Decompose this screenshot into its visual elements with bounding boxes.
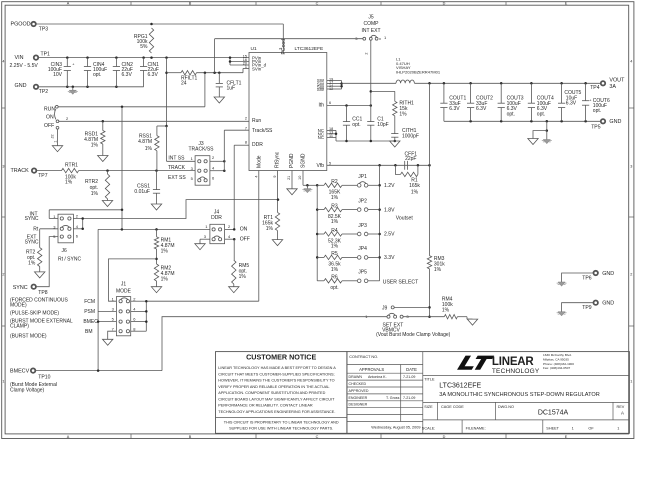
- svg-text:3.3V: 3.3V: [384, 255, 395, 261]
- wire SYNC net (J6 pin2 to RtSync): [73, 200, 278, 219]
- svg-text:D: D: [443, 2, 446, 6]
- svg-text:TP6: TP6: [582, 276, 592, 282]
- svg-text:VIN: VIN: [15, 55, 24, 61]
- resistor RT2 opt. 1%: [40, 228, 58, 230]
- svg-text:E: E: [565, 2, 568, 6]
- ground (RM4): [467, 319, 477, 325]
- svg-text:(BURST MODE): (BURST MODE): [10, 333, 47, 339]
- wire U1 DDR pin 8 to J4: [234, 144, 249, 146]
- svg-text:TP7: TP7: [38, 173, 48, 179]
- svg-text:VOUT: VOUT: [609, 77, 625, 83]
- svg-text:2: 2: [365, 52, 369, 54]
- wire U1 Mode pin 4 down to J1 pin2: [258, 171, 260, 302]
- svg-text:opt.: opt.: [93, 72, 101, 78]
- wire U1 RtSync pin 9 to RT1: [277, 171, 279, 213]
- svg-text:SGND: SGND: [301, 153, 307, 168]
- svg-text:CHECKED: CHECKED: [349, 382, 367, 386]
- ground (RM2): [151, 287, 161, 293]
- wire BMECV vertical (J4 pin1 down): [97, 229, 99, 370]
- svg-text:Rt / SYNC: Rt / SYNC: [58, 256, 81, 262]
- svg-text:Vfb: Vfb: [316, 163, 324, 169]
- svg-text:LINEAR: LINEAR: [492, 356, 535, 368]
- capacitor CFLT1 1uF: [218, 73, 220, 84]
- svg-text:TP5: TP5: [591, 125, 601, 131]
- svg-text:1%: 1%: [399, 111, 407, 117]
- svg-text:SW: SW: [317, 87, 325, 92]
- svg-text:10pF: 10pF: [377, 122, 388, 128]
- resistor R5 36.5k 1%: [317, 256, 324, 258]
- svg-text:BM: BM: [85, 329, 93, 335]
- svg-text:LTC3612EFE: LTC3612EFE: [295, 46, 324, 52]
- svg-text:TP8: TP8: [38, 290, 48, 296]
- svg-text:opt.: opt.: [352, 122, 360, 128]
- svg-text:1000pF: 1000pF: [402, 133, 419, 139]
- svg-text:GND: GND: [609, 119, 621, 125]
- svg-text:BMEC: BMEC: [83, 319, 98, 325]
- svg-text:JP5: JP5: [358, 270, 367, 276]
- wire J5 pin2 down to ITH node: [370, 40, 372, 91]
- svg-text:APPROVALS: APPROVALS: [359, 367, 384, 372]
- capacitor CFF1 22pF: [404, 161, 406, 170]
- svg-text:1.2V: 1.2V: [384, 183, 395, 189]
- svg-text:3: 3: [279, 48, 283, 50]
- svg-text:ENGINEER: ENGINEER: [349, 396, 368, 400]
- wire J2 RUN pin to SVin node vertical: [58, 106, 205, 108]
- svg-text:C: C: [316, 435, 319, 439]
- svg-text:DDR: DDR: [211, 215, 222, 221]
- svg-text:5%: 5%: [140, 44, 148, 50]
- svg-text:Track/SS: Track/SS: [252, 128, 273, 134]
- capacitor COUT2 33uF 6.3V: [470, 83, 472, 103]
- svg-text:INT SS: INT SS: [168, 155, 185, 161]
- svg-text:FCM: FCM: [84, 299, 95, 305]
- svg-text:COMP: COMP: [364, 21, 380, 27]
- svg-text:JP3: JP3: [358, 223, 367, 229]
- svg-text:GND: GND: [602, 301, 614, 307]
- svg-text:opt.: opt.: [537, 111, 545, 117]
- wire VOUT rail: [414, 82, 600, 84]
- svg-text:SHEET: SHEET: [546, 426, 559, 430]
- wire J3 pins 2/4 to U1 Track/SS pin 7: [210, 160, 224, 162]
- svg-text:JP2: JP2: [358, 198, 367, 204]
- svg-text:RtSync: RtSync: [275, 151, 281, 168]
- jumper JP1: [357, 184, 361, 188]
- svg-text:MODE: MODE: [116, 288, 132, 294]
- svg-text:ON: ON: [46, 115, 54, 121]
- wire BMECV net to J9 pin1: [162, 317, 387, 371]
- svg-text:U1: U1: [251, 46, 257, 52]
- svg-text:1: 1: [2, 379, 4, 383]
- jumper JP2: [357, 208, 361, 212]
- wire RSS1 top to VIN vertical / J3 pin1: [157, 125, 167, 127]
- resistor R6 opt.: [317, 280, 324, 282]
- wire Vfb (U1 pin 5) to feedback node: [327, 164, 430, 166]
- svg-text:1%: 1%: [91, 191, 99, 197]
- svg-text:TECHNOLOGY: TECHNOLOGY: [492, 368, 540, 375]
- wire RM1/RM2 junction to J1 pin1 (FCM): [109, 259, 157, 301]
- capacitor COUT1 33uF 6.3V: [443, 83, 445, 103]
- resistor R2 165K 1%: [317, 184, 324, 186]
- wire J1 pin7 (BM) to ground: [108, 331, 117, 339]
- ground (ITH network): [390, 141, 400, 147]
- svg-text:SVin: SVin: [252, 66, 262, 71]
- svg-text:R4: R4: [331, 228, 338, 234]
- svg-text:DC1574A: DC1574A: [538, 410, 569, 417]
- test point TP9 GND: [594, 301, 598, 305]
- ground (RSD1): [98, 156, 108, 162]
- svg-text:R5: R5: [331, 251, 338, 257]
- ground (CSS1): [151, 204, 161, 210]
- wire PGOOD net (TP3 to U1 PGood pin): [36, 23, 283, 25]
- svg-text:22pF: 22pF: [405, 156, 416, 162]
- svg-text:J6: J6: [62, 248, 68, 254]
- svg-text:Voutset: Voutset: [396, 215, 414, 221]
- wire BMECV net: [35, 370, 162, 372]
- svg-text:EXT SS: EXT SS: [168, 175, 186, 181]
- capacitor COUT6 100uF opt. (electrolytic): [585, 83, 587, 100]
- svg-text:DDR: DDR: [252, 142, 263, 148]
- wire NC bus / compensation ground rail: [327, 129, 336, 131]
- svg-text:1%: 1%: [145, 146, 153, 152]
- svg-text:B: B: [189, 2, 192, 6]
- svg-text:DRAWN: DRAWN: [349, 375, 363, 379]
- svg-text:opt.: opt.: [507, 111, 515, 117]
- svg-text:OFF: OFF: [44, 123, 54, 129]
- svg-text:OFF: OFF: [240, 236, 250, 242]
- svg-text:1%: 1%: [442, 307, 450, 313]
- svg-text:BMECV: BMECV: [10, 368, 30, 374]
- svg-text:2: 2: [630, 272, 632, 276]
- capacitor CITH1 1000pF: [394, 116, 396, 134]
- svg-text:1: 1: [54, 140, 58, 142]
- svg-text:1630 McCarthy Blvd.: 1630 McCarthy Blvd.: [543, 353, 572, 357]
- svg-text:1.8V: 1.8V: [384, 207, 395, 213]
- capacitor COUT4 100uF 6.3V opt.: [530, 83, 532, 103]
- ground (output, open): [528, 139, 538, 145]
- resistor RSS1 4.87M 1%: [156, 126, 158, 136]
- svg-text:PSM: PSM: [84, 309, 95, 315]
- resistor R4 52.3K 1%: [317, 233, 324, 235]
- wire VIN rail: [38, 57, 230, 59]
- svg-text:Rt: Rt: [33, 226, 39, 232]
- resistor RT1 165k 1%: [275, 212, 279, 230]
- svg-text:x: x: [379, 37, 381, 41]
- resistor RM5 opt. 1% (DDR pulldown): [233, 239, 235, 260]
- svg-text:VERIFY PROPER AND RELIABLE OPE: VERIFY PROPER AND RELIABLE OPERATION IN …: [218, 385, 329, 389]
- svg-text:1%: 1%: [91, 143, 99, 149]
- svg-text:REV: REV: [617, 405, 625, 409]
- wire RUN node vertical: [121, 107, 123, 230]
- Linear Technology logo: [423, 374, 630, 376]
- svg-text:10V: 10V: [53, 72, 63, 78]
- wire PVin bus to U1 pins 15/16/20: [230, 57, 249, 59]
- svg-text:J9: J9: [382, 306, 388, 312]
- resistor RFILT1 24: [181, 71, 197, 75]
- svg-text:1uF: 1uF: [227, 86, 236, 92]
- svg-text:Antonina K.: Antonina K.: [368, 375, 387, 379]
- capacitor CC1 opt.: [346, 106, 348, 122]
- capacitor CIN4 100uF opt.: [87, 58, 89, 67]
- op-amp U1 LTC3612EFE (regulator IC): [249, 53, 327, 171]
- svg-text:OF: OF: [588, 426, 594, 430]
- capacitor COUT5 10uF 6.3V: [561, 83, 563, 103]
- svg-text:CLAMP): CLAMP): [10, 324, 29, 330]
- svg-text:165k: 165k: [409, 183, 420, 189]
- svg-text:CIRCUIT BOARD LAYOUT MAY SIGNI: CIRCUIT BOARD LAYOUT MAY SIGNIFICANTLY A…: [218, 397, 335, 401]
- wire GND rail (output): [444, 120, 601, 122]
- svg-text:1%: 1%: [331, 244, 339, 250]
- svg-text:Clamp Voltage): Clamp Voltage): [10, 387, 45, 393]
- wire TP9 to ground: [562, 303, 594, 312]
- svg-text:CAGE CODE: CAGE CODE: [441, 405, 464, 409]
- resistor RM4 100k 1%: [444, 315, 457, 319]
- wire U1 SGND pin 10 to ladder: [302, 171, 304, 186]
- svg-text:(Vout Burst Mode Clamp Voltage: (Vout Burst Mode Clamp Voltage): [376, 332, 451, 338]
- capacitor COUT3 100uF 6.3V opt.: [500, 83, 502, 103]
- svg-text:PGood: PGood: [281, 39, 287, 55]
- svg-text:1%: 1%: [161, 248, 169, 254]
- svg-text:PERFORMANCE OR RELIABILITY. C: PERFORMANCE OR RELIABILITY. CONTACT LINE…: [218, 404, 313, 408]
- svg-text:A: A: [621, 410, 624, 415]
- wire J1 pin3 (PSM) to BMECV vertical: [98, 310, 116, 312]
- svg-text:2: 2: [2, 272, 4, 276]
- svg-text:INT EXT: INT EXT: [361, 28, 380, 34]
- svg-text:SYNC: SYNC: [25, 239, 39, 245]
- svg-text:GND: GND: [15, 83, 27, 89]
- svg-text:CIRCUIT THAT MEETS CUSTOMER-SU: CIRCUIT THAT MEETS CUSTOMER-SUPPLIED SPE…: [218, 372, 334, 376]
- wire output ground stub: [546, 121, 548, 130]
- svg-text:SYNC: SYNC: [13, 285, 28, 291]
- ground (J4): [195, 244, 205, 250]
- svg-text:4: 4: [630, 59, 632, 63]
- svg-text:SCALE:: SCALE:: [422, 426, 436, 430]
- svg-text:MODE): MODE): [10, 303, 27, 309]
- svg-text:(PULSE-SKIP MODE): (PULSE-SKIP MODE): [10, 311, 59, 317]
- ground (RTR2): [102, 201, 112, 207]
- svg-text:1: 1: [617, 426, 619, 430]
- svg-text:TP3: TP3: [39, 27, 49, 33]
- connector J6 Rt/SYNC header: [58, 214, 73, 243]
- svg-text:TP4: TP4: [590, 85, 600, 91]
- wire VOUT to RM3 vertical: [429, 83, 431, 255]
- svg-text:5: 5: [329, 161, 331, 165]
- svg-text:7-21-09: 7-21-09: [403, 396, 415, 400]
- capacitor CIN2 22uF 6.3V: [115, 58, 117, 67]
- svg-text:6.3V: 6.3V: [476, 106, 487, 112]
- svg-text:TRACK: TRACK: [168, 165, 186, 171]
- svg-text:R6: R6: [331, 275, 338, 281]
- wire J5 pin3 to SVin node: [345, 38, 363, 40]
- svg-text:C: C: [316, 2, 319, 6]
- customer notice box: [216, 352, 347, 434]
- svg-text:1%: 1%: [28, 260, 36, 266]
- wire TP6 to ground: [562, 273, 594, 282]
- ground (TP9): [558, 312, 565, 316]
- svg-text:R3: R3: [331, 203, 338, 209]
- svg-text:TECHNOLOGY APPLICATIONS ENGINE: TECHNOLOGY APPLICATIONS ENGINEERING FOR …: [218, 410, 335, 414]
- svg-text:TITLE: TITLE: [424, 378, 435, 382]
- svg-text:7-21-09: 7-21-09: [403, 375, 415, 379]
- svg-text:D: D: [443, 435, 446, 439]
- svg-text:HOWEVER, IT REMAINS THE CUSTOM: HOWEVER, IT REMAINS THE CUSTOMER'S RESPO…: [218, 379, 334, 383]
- svg-text:CUSTOMER NOTICE: CUSTOMER NOTICE: [246, 352, 316, 361]
- capacitor CSS1 0.01uF: [156, 171, 158, 190]
- svg-text:E: E: [565, 435, 568, 439]
- svg-text:A: A: [67, 435, 70, 439]
- ground (input rail): [72, 86, 75, 89]
- jumper JP4: [357, 256, 361, 260]
- svg-text:1%: 1%: [411, 189, 419, 195]
- svg-text:Run: Run: [252, 118, 261, 124]
- svg-text:TP2: TP2: [39, 89, 49, 95]
- svg-text:DWG.NO: DWG.NO: [498, 405, 514, 409]
- svg-text:1%: 1%: [239, 274, 247, 280]
- wire J4 pin1 / RM1 row: [98, 228, 210, 230]
- svg-text:R2: R2: [331, 179, 338, 185]
- jumper JP3: [357, 232, 361, 236]
- resistor RTR2 opt. 1%: [107, 171, 109, 174]
- svg-text:1%: 1%: [161, 277, 169, 283]
- svg-text:21: 21: [287, 176, 291, 180]
- svg-text:1%: 1%: [331, 267, 339, 273]
- test point TP6 GND: [594, 271, 598, 275]
- svg-text:TP10: TP10: [38, 374, 50, 380]
- resistor RM2 4.87M 1%: [154, 264, 158, 281]
- svg-text:24: 24: [181, 81, 187, 87]
- wire TP8 to J6 pin5: [36, 237, 58, 287]
- svg-text:4: 4: [2, 59, 4, 63]
- wire J6 pins2/4 tie: [73, 228, 82, 230]
- ground (SGND signal ground): [306, 185, 308, 188]
- svg-text:1: 1: [630, 379, 632, 383]
- svg-text:6.3V: 6.3V: [122, 72, 133, 78]
- inductor L1 0.47UH VISHAY IHLP2020BZERR47M01: [396, 80, 414, 83]
- svg-text:PGND: PGND: [289, 153, 295, 168]
- svg-text:TRACK/SS: TRACK/SS: [188, 147, 214, 153]
- svg-text:1%: 1%: [331, 219, 339, 225]
- svg-text:ON: ON: [240, 227, 248, 233]
- svg-text:10: 10: [298, 176, 302, 180]
- ground (CFLT1): [214, 97, 224, 103]
- wire Voutset ladder right rail (Vfb): [379, 165, 381, 280]
- svg-text:6.3V: 6.3V: [148, 72, 159, 78]
- svg-text:Milpitas, CA 95035: Milpitas, CA 95035: [543, 357, 569, 361]
- svg-text:3A: 3A: [609, 84, 616, 90]
- svg-text:DESIGNER: DESIGNER: [349, 403, 368, 407]
- resistor RM1 4.87M 1%: [156, 229, 158, 236]
- wire J9 pin3 to RM4: [403, 316, 444, 318]
- svg-text:IHLP2020BZERR47M01: IHLP2020BZERR47M01: [396, 69, 441, 74]
- resistor RTR1 100k 1%: [62, 168, 79, 172]
- svg-text:FILENAME:: FILENAME:: [466, 426, 486, 430]
- wire RM4 to ground: [457, 316, 467, 318]
- wire ITH node (J5 pin2 / RITH1 branch): [370, 91, 372, 121]
- svg-text:T. Gross: T. Gross: [386, 396, 400, 400]
- svg-text:J1: J1: [121, 282, 127, 288]
- svg-text:6.3V: 6.3V: [449, 106, 460, 112]
- svg-text:JP4: JP4: [358, 246, 367, 252]
- svg-text:Phone: (408)432-1900: Phone: (408)432-1900: [543, 362, 574, 366]
- svg-text:4: 4: [255, 175, 259, 177]
- ground (PGND): [287, 189, 297, 195]
- wire RFILT1 output to SVin (U1 pin 1): [197, 72, 244, 74]
- svg-text:9: 9: [273, 175, 277, 177]
- wire TRACK net to J3: [79, 170, 196, 172]
- ground (TP6): [558, 282, 565, 286]
- resistor RITH1 15k 1%: [393, 101, 397, 116]
- title block: [347, 352, 630, 434]
- capacitor C1 10pF: [367, 121, 374, 123]
- test point TP5 GND: [601, 119, 605, 123]
- wire SVin node down to RUN line: [204, 73, 206, 107]
- svg-text:A: A: [67, 2, 70, 6]
- wire VIN to RFILT1 / SVin node: [166, 58, 168, 126]
- ground (J2): [52, 146, 62, 152]
- svg-text:B: B: [189, 435, 192, 439]
- capacitor CIN1 22uF 6.3V: [143, 58, 145, 67]
- capacitor CIN3 100uF 10V: [66, 58, 68, 67]
- svg-text:SIZE: SIZE: [424, 405, 433, 409]
- svg-text:6: 6: [329, 101, 331, 105]
- svg-text:APPLICATION. COMPONENT SUBSTI: APPLICATION. COMPONENT SUBSTITUTION AND …: [218, 391, 325, 395]
- resistor R3 82.5K 1%: [317, 209, 324, 211]
- svg-text:8: 8: [245, 141, 247, 145]
- svg-text:USER SELECT: USER SELECT: [383, 279, 418, 285]
- svg-text:TP9: TP9: [582, 305, 592, 311]
- wire U1 PGND pin 21 to ground: [291, 171, 293, 189]
- svg-text:NC: NC: [318, 135, 324, 140]
- svg-text:JP1: JP1: [358, 174, 367, 180]
- svg-text:3: 3: [630, 164, 632, 168]
- ground (output, signal): [543, 140, 550, 144]
- svg-text:1: 1: [245, 65, 247, 69]
- svg-text:1%: 1%: [266, 226, 274, 232]
- test point TP4 VOUT 3A: [601, 81, 605, 85]
- resistor RPG1 100k 5% (PGOOD pull-up): [149, 28, 153, 53]
- svg-text:3: 3: [2, 164, 4, 168]
- wire J2 OFF pin to ground: [57, 129, 59, 146]
- svg-text:SUPPLIED FOR USE WITH LINEAR T: SUPPLIED FOR USE WITH LINEAR TECHNOLOGY …: [229, 427, 333, 431]
- wire Voutset ladder left rail (SGND): [316, 185, 318, 280]
- svg-text:LINEAR TECHNOLOGY HAS MADE A B: LINEAR TECHNOLOGY HAS MADE A BEST EFFORT…: [218, 366, 336, 370]
- svg-text:0.01uF: 0.01uF: [134, 189, 150, 195]
- resistor R1 165k (feedback): [395, 165, 400, 174]
- svg-text:RTR1: RTR1: [65, 163, 78, 169]
- wire J4 pins2/4 junctions: [225, 228, 235, 230]
- svg-text:Ith: Ith: [318, 103, 324, 109]
- svg-text:GND: GND: [602, 271, 614, 277]
- svg-text:RUN: RUN: [44, 106, 55, 112]
- jumper JP5: [357, 279, 361, 283]
- svg-text:SYNC: SYNC: [25, 216, 39, 222]
- svg-text:TRACK: TRACK: [11, 168, 30, 174]
- wire SW bus (U1 pins 19/17/14/12): [327, 80, 342, 82]
- svg-text:1%: 1%: [434, 267, 442, 273]
- svg-text:TP1: TP1: [41, 51, 51, 57]
- wire J6 pin1 to INT SYNC line: [49, 218, 58, 220]
- svg-text:4.87M: 4.87M: [138, 139, 152, 145]
- ground (J1): [103, 339, 113, 345]
- svg-text:2: 2: [245, 117, 247, 121]
- svg-text:THIS CIRCUIT IS PROPRIETARY TO: THIS CIRCUIT IS PROPRIETARY TO LINEAR TE…: [224, 420, 339, 424]
- ground (RM5): [229, 287, 239, 293]
- svg-text:Mode: Mode: [257, 155, 263, 168]
- wire GND rail (input): [38, 86, 143, 88]
- svg-text:CONTRACT NO.: CONTRACT NO.: [349, 355, 378, 359]
- svg-text:DATE: DATE: [406, 367, 417, 372]
- svg-text:Fax: (408)434-0507: Fax: (408)434-0507: [543, 366, 570, 370]
- svg-text:3A MONOLITHIC SYNCHRONOUS STEP: 3A MONOLITHIC SYNCHRONOUS STEP-DOWN REGU…: [439, 392, 599, 398]
